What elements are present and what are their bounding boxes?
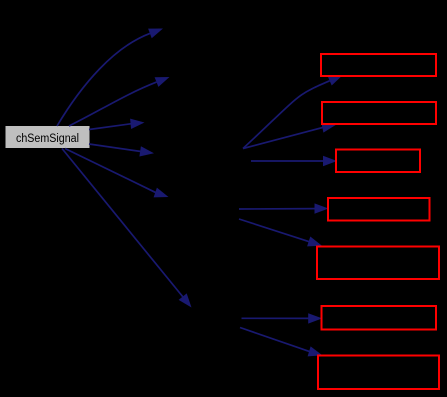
edge hidden node 6->box7	[240, 328, 323, 357]
svg-text:chSemSignal: chSemSignal	[16, 133, 79, 145]
edge hidden node 5->box5	[239, 219, 322, 246]
red node box1	[321, 54, 436, 76]
red node box2	[322, 102, 436, 124]
edge chSemSignal->hidden node 6 (long)	[62, 149, 192, 308]
red node box4	[328, 198, 430, 221]
node chSemSignal (caller, grey)	[6, 126, 90, 148]
edge hidden node 5->box4	[239, 203, 329, 213]
edge chSemSignal->hidden node 4	[89, 144, 154, 157]
red node box6	[322, 306, 437, 330]
edge hidden node 4->box1 (S-curve)	[243, 75, 343, 148]
red node box3	[336, 150, 420, 173]
edge hidden node 4->box3	[251, 156, 337, 166]
edge chSemSignal->hidden node 3	[89, 119, 145, 130]
edge hidden node 4->box2	[243, 122, 336, 148]
red node box7	[318, 356, 439, 390]
edge hidden node 6->box6	[242, 313, 323, 323]
edge chSemSignal->hidden node 2 (curved)	[69, 77, 170, 126]
edge chSemSignal->hidden node 1 (curved)	[57, 29, 163, 127]
red node box5	[317, 247, 439, 280]
edge chSemSignal->hidden node 5	[65, 149, 169, 198]
